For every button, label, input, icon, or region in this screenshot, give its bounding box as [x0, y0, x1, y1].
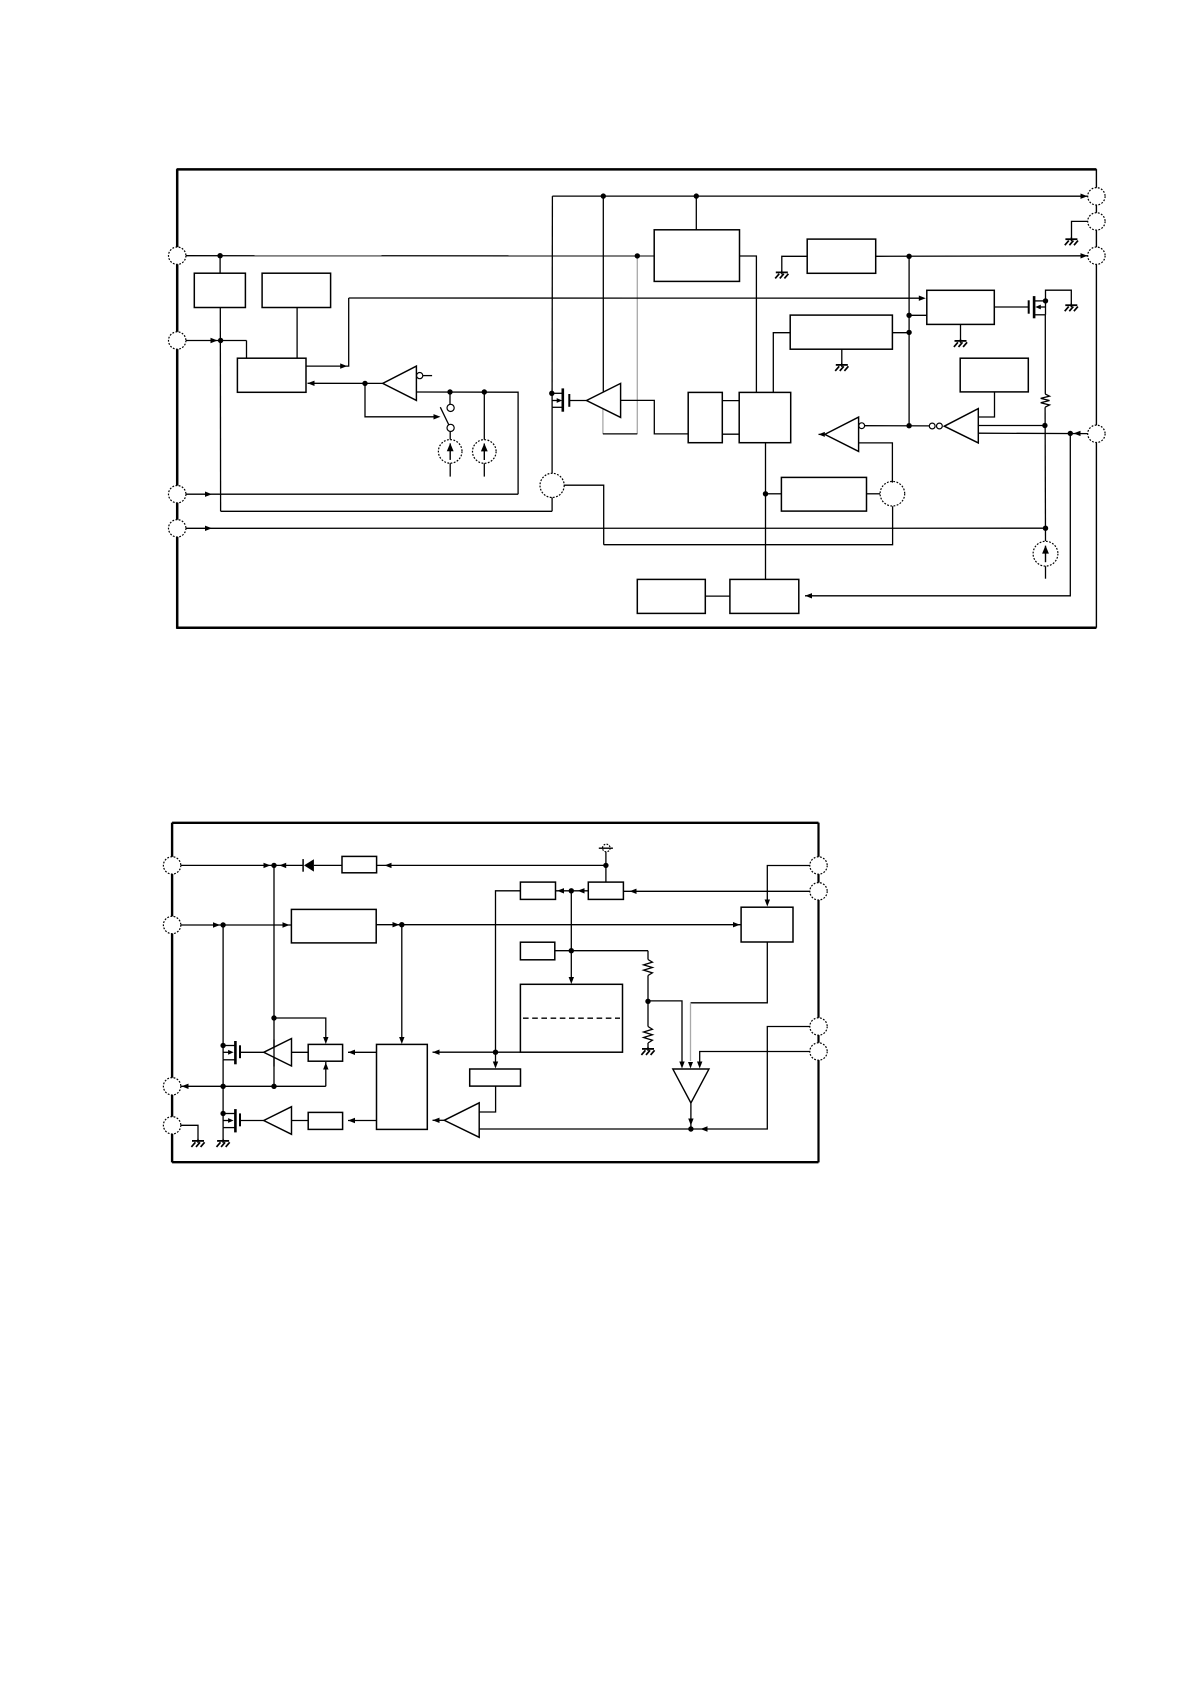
arrowhead pin L4: [205, 526, 212, 531]
junction: [569, 888, 574, 893]
arrowhead pin L2: [211, 338, 218, 343]
ground below R3: [641, 1047, 654, 1055]
pin C terminal: [1088, 247, 1105, 264]
junction: [906, 313, 911, 318]
block B6: [927, 290, 995, 324]
wire Bp1 to U6: [292, 1051, 309, 1053]
block Bp2: [308, 1112, 342, 1129]
wire node495 right: [496, 1051, 521, 1053]
driver U6: [264, 1039, 292, 1067]
wire B5 left to ground: [782, 256, 807, 272]
arrowhead into Bq right b: [433, 1118, 440, 1123]
wire U4 bubble to x=909 node: [865, 425, 930, 427]
wire Q2 source through A1: [551, 407, 553, 511]
arrowhead into Bq top: [399, 1037, 404, 1044]
arrowhead into Bp1 bottom: [323, 1063, 328, 1070]
block Bi: [520, 942, 554, 960]
block B7: [790, 315, 892, 349]
current source I2: [473, 440, 497, 464]
arrowhead back from diode: [279, 863, 286, 868]
junction: [493, 1050, 498, 1055]
pin 3 terminal: [169, 486, 186, 503]
arrowhead on feedback: [701, 1126, 708, 1131]
pin B terminal: [1088, 213, 1105, 230]
block Bd: [342, 856, 377, 872]
wire B2 bottom to B3: [296, 308, 298, 359]
block Bj comparator with level: [520, 984, 622, 1052]
pin 12 terminal: [163, 916, 180, 933]
ground at Q3 drain: [1065, 303, 1078, 311]
block Bh: [588, 882, 623, 899]
arrowhead near pin R4: [1074, 431, 1081, 436]
arrowhead into dot571: [578, 888, 585, 893]
wire pin B1 rail y=865: [180, 864, 304, 866]
block Bb2: [730, 579, 799, 613]
arrowhead on B3 out: [340, 363, 347, 368]
arrowhead into Bj top: [569, 977, 574, 984]
wire switch top: [449, 392, 451, 404]
wire F-block right to A2: [867, 493, 881, 495]
wire node to B3 top: [246, 341, 248, 359]
inverter U2: [383, 366, 417, 400]
arrowhead into Bk left: [733, 922, 740, 927]
arrow stub from U4 tip: [819, 433, 825, 435]
arrowhead into Bh: [630, 889, 637, 894]
block B8: [960, 358, 1028, 392]
block Bk: [741, 907, 793, 942]
wire M-block bottom x=765: [765, 443, 767, 580]
ground at pin B4: [191, 1139, 204, 1147]
ground below B6: [954, 339, 967, 347]
wire F-block left tap: [766, 493, 782, 495]
block M1: [688, 392, 722, 442]
wire pin L3 rail y=494: [186, 493, 519, 495]
junction: [399, 922, 404, 927]
wire pin L2 into node: [186, 340, 247, 342]
wire U2 bubble stub: [423, 375, 432, 377]
arrowhead pin B2 b: [283, 922, 290, 927]
wire grey x=637: [636, 256, 638, 434]
block Bb1: [637, 579, 705, 613]
switch S1: [440, 404, 454, 431]
resistor R2: [644, 960, 653, 976]
arrowhead into B6: [919, 296, 926, 301]
pin 14 terminal: [163, 1117, 180, 1134]
junction: [1043, 526, 1048, 531]
wire Bq to Bp1: [348, 1051, 377, 1053]
pin F terminal: [810, 883, 827, 900]
transistor Q5: [220, 1109, 263, 1132]
wire pin B3 rail y=1086: [180, 1085, 326, 1087]
wire x=909 control line: [908, 256, 910, 425]
wire up into Bp1 bottom: [325, 1062, 327, 1086]
pin G terminal: [810, 1018, 827, 1035]
pin 4 terminal: [169, 520, 186, 537]
wire node648 to R3: [647, 1001, 649, 1026]
outer border of IC block diagram 2: [172, 822, 818, 824]
wire pin B2 rail y=925: [180, 924, 292, 926]
wire U5 upper stub to B8: [978, 392, 994, 417]
wire B6 to Q3 gate: [994, 306, 1028, 308]
wire dot909 to B6: [909, 314, 927, 316]
op-amp U9: [673, 1069, 709, 1103]
wire Q3 drain to ground: [1046, 290, 1072, 304]
pin D terminal: [1088, 425, 1105, 442]
wire Be branch x=402: [401, 925, 403, 1040]
wire pin B5 to Bk: [767, 866, 810, 902]
wire B3 out up corner: [306, 298, 349, 366]
junction: [694, 193, 699, 198]
wire mid x=223: [222, 1060, 224, 1087]
transistor Q2: [549, 388, 586, 411]
wire pin B7 feedback: [479, 1027, 810, 1130]
pin 2 terminal: [169, 332, 186, 349]
diode D1: [303, 859, 342, 872]
wire B7 right to dot909: [892, 332, 909, 334]
block Bq logic: [377, 1044, 428, 1129]
junction: [906, 330, 911, 335]
arrowhead at switch lever: [434, 414, 441, 419]
wire B1 bottom long x=220: [219, 308, 221, 512]
junction: [635, 253, 640, 258]
arrowhead into Bq right a: [433, 1050, 440, 1055]
arrowhead into Bp1 top: [323, 1037, 328, 1044]
pin H terminal: [810, 1043, 827, 1060]
wire pin R2 to ground: [1072, 221, 1089, 238]
wire I1 stub: [449, 463, 451, 476]
wire branch to Bp1 top: [274, 1018, 326, 1040]
wire node495 into Br: [495, 1052, 497, 1064]
wire switch to I1: [449, 432, 451, 440]
wire pin B4 to ground: [180, 1125, 199, 1140]
outer border of IC block diagram 1: [177, 168, 1097, 171]
junction: [603, 863, 608, 868]
block M2: [739, 392, 791, 442]
pin E terminal: [810, 857, 827, 874]
ground at block B5 input: [775, 270, 788, 278]
wire VCC x=223: [222, 925, 224, 1046]
wire to R2 and down: [647, 951, 649, 960]
wire R2 to node: [647, 976, 649, 1002]
wire circle A1 right path: [564, 485, 604, 545]
wire B7 left to M-block top: [773, 333, 790, 393]
wire pin B8 to opamp: [700, 1052, 811, 1065]
junction: [220, 1084, 225, 1089]
wire VDD top rail y=196: [552, 195, 1089, 197]
junction: [645, 999, 650, 1004]
arrowhead opamp in1: [679, 1062, 684, 1069]
wire Bi right y=950: [555, 950, 648, 952]
wire feed to block B4 top: [695, 196, 697, 230]
arrowhead into Bp2 right: [348, 1118, 355, 1123]
junction: [1068, 431, 1073, 436]
wire x=274 vertical: [273, 865, 275, 1086]
arrowhead after Be: [393, 922, 400, 927]
wire y=544 to A2: [604, 506, 893, 545]
inverter U5: [944, 409, 978, 443]
block Be: [291, 909, 376, 943]
ground at pin R2: [1065, 237, 1078, 245]
wire R1 to I3: [1044, 407, 1046, 541]
block Bg: [520, 882, 555, 899]
inverter U4: [825, 417, 859, 451]
sense circle A1: [540, 473, 564, 497]
wire src x=223 to gnd: [222, 1128, 224, 1141]
block B2: [262, 273, 331, 307]
ground below Q5: [217, 1139, 230, 1147]
arrowhead opamp in3: [697, 1062, 702, 1069]
wire U5 lower stub to pin R4: [978, 432, 1089, 434]
wire I2 top: [483, 392, 485, 440]
arrowhead into Bb2: [805, 593, 812, 598]
resistor R1: [1041, 394, 1050, 407]
transistor Q3: [1029, 296, 1049, 318]
wire drain line x=552 to Q1: [551, 196, 553, 393]
arrowhead into Dbox: [385, 863, 392, 868]
junction: [447, 389, 452, 394]
wire B5 out to pin rail: [876, 255, 1089, 257]
wire pin B6 to Bh: [623, 890, 810, 892]
pin A terminal: [1088, 188, 1105, 205]
wire x=603 vertical through buffer U3: [602, 196, 604, 391]
wire Bp2 to U7: [292, 1120, 309, 1122]
wire pin1 rail y=256: [186, 255, 655, 257]
arrowhead into pin A: [1081, 194, 1088, 199]
pin 1 terminal: [169, 247, 186, 264]
wire Bb1-Bb2 link: [705, 595, 730, 597]
wire pin L4 rail y=528: [186, 527, 1046, 529]
arrowhead into Bp1 right: [348, 1050, 355, 1055]
wire U5 mid stub y=425: [978, 425, 1045, 427]
wire I2 stub: [483, 463, 485, 476]
block F1: [781, 477, 866, 511]
wire B4 out to M-block: [740, 256, 757, 392]
wire M1-M2 upper link: [722, 400, 739, 402]
wire Bg left loop x=495: [496, 891, 521, 1052]
wire node606 to Bh top: [605, 865, 607, 882]
arrowhead opamp out: [688, 1119, 693, 1126]
junction: [217, 253, 222, 258]
wire Bh-Bg y=891: [556, 890, 589, 892]
junction: [220, 922, 225, 927]
junction: [569, 948, 574, 953]
resistor R3: [644, 1027, 653, 1044]
junction: [601, 193, 606, 198]
wire grey opamp in2: [690, 1003, 692, 1061]
wire Be out y=925: [376, 924, 741, 926]
wire M1-M2 lower link: [722, 433, 739, 435]
wire node495 to Bq: [433, 1051, 496, 1053]
wire x=571 to Bj: [570, 891, 572, 980]
pin 11 terminal: [163, 857, 180, 874]
junction: [271, 1015, 276, 1020]
junction: [906, 254, 911, 259]
junction: [688, 1126, 693, 1131]
wire y=511 return: [221, 510, 552, 512]
junction: [482, 389, 487, 394]
arrowhead into B3 right: [308, 381, 315, 386]
junction: [218, 338, 223, 343]
ground below B7: [835, 363, 848, 371]
arrowhead into pin B3: [182, 1084, 189, 1089]
driver U7: [264, 1107, 292, 1135]
junction: [271, 863, 276, 868]
current source I1: [438, 440, 462, 464]
arrowhead pin B2 a: [213, 922, 220, 927]
wire pin R4 branch down: [805, 433, 1070, 595]
wire Br bottom to U8: [479, 1086, 495, 1112]
block B3: [237, 358, 306, 392]
block B5: [807, 239, 876, 273]
block Bp1: [308, 1044, 342, 1061]
block B1: [194, 273, 245, 307]
wire switch control: [365, 383, 435, 416]
junction: [362, 381, 367, 386]
pad symbol TP1: [599, 844, 613, 865]
arrowhead into Bg: [557, 888, 564, 893]
junction: [271, 1084, 276, 1089]
wire pin1 tap to B1: [219, 256, 221, 274]
wire R3 to ground: [647, 1043, 649, 1048]
wire B6 ground stub: [960, 324, 962, 340]
wire Bk bottom loop: [691, 942, 768, 1003]
arrowhead into Br top: [493, 1062, 498, 1069]
junction: [906, 423, 911, 428]
current source I3: [1033, 541, 1058, 566]
wire U3 out path to M-block: [621, 400, 689, 434]
arrowhead opamp in2: [688, 1062, 693, 1069]
wire opamp out: [690, 1103, 692, 1129]
wire U2 input rail y=392: [416, 392, 518, 494]
sense circle A2: [880, 481, 905, 506]
arrowhead to dot274: [264, 863, 271, 868]
wire U2 out to B3: [308, 382, 383, 384]
junction: [1042, 423, 1047, 428]
arrowhead pin L3: [205, 492, 212, 497]
buffer U8: [444, 1103, 479, 1138]
arrowhead into Bk top: [765, 900, 770, 907]
transistor Q4: [220, 1041, 263, 1064]
wire U4 lower stub to A2 top: [859, 443, 893, 483]
wire I3 stub: [1045, 566, 1047, 579]
block Br: [470, 1069, 521, 1086]
wire long control y=298: [349, 297, 921, 299]
wire node648 to opamp: [648, 1001, 682, 1065]
wire Dbox to node x=606: [377, 864, 606, 866]
arrowhead into pin C: [1081, 253, 1088, 258]
wire x=274 crossing U6: [273, 1040, 275, 1067]
wire low x=223: [222, 1086, 224, 1113]
wire B7 ground stub: [841, 349, 843, 364]
wire grey stub below U3: [602, 408, 604, 434]
buffer U3: [587, 383, 621, 417]
wire Bq to Bp2: [348, 1120, 377, 1122]
wire Q3 source chain x=1045: [1044, 315, 1046, 394]
wire bottom of grey loop: [603, 433, 637, 435]
block B4: [654, 230, 739, 282]
wire U8 tip to Bq: [433, 1119, 445, 1121]
junction: [763, 491, 768, 496]
pin 13 terminal: [163, 1078, 180, 1095]
